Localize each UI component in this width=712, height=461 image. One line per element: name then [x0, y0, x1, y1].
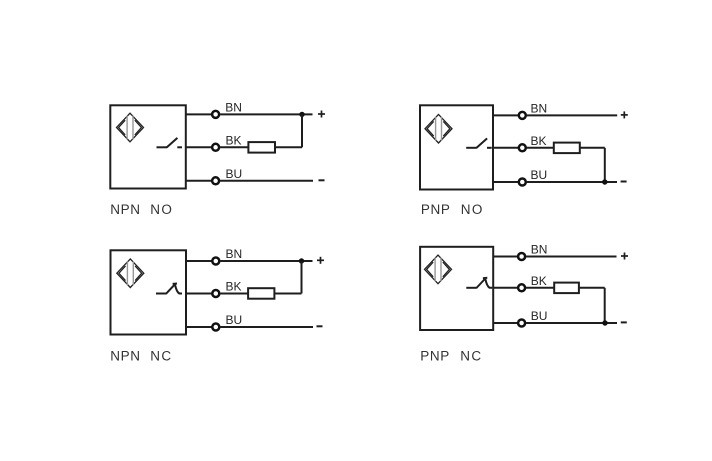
svg-text:BU: BU — [226, 313, 243, 327]
wire BU Q2 (terminal to -) — [527, 181, 617, 183]
wire BN Q4 (box to terminal) — [493, 256, 517, 258]
sensor body PNP-NC — [420, 247, 493, 330]
NC switch Q4 — [466, 278, 492, 288]
wire BK Q1 (terminal to resistor) — [220, 146, 249, 148]
wire resistor to corner Q1 — [275, 146, 302, 148]
junction dot Q1 on BN — [299, 112, 304, 117]
wire resistor to corner Q3 — [274, 293, 301, 295]
wire resistor to corner Q2 — [580, 147, 605, 149]
plus terminal Q2 — [621, 111, 628, 118]
wire BN Q2 (terminal to +) — [527, 114, 618, 116]
wire BK Q3 (terminal to resistor) — [220, 293, 248, 295]
proximity symbol inner bars Q2 — [436, 117, 442, 141]
proximity symbol inner bars Q1 — [127, 116, 133, 140]
wire BU Q1 (terminal to -) — [220, 180, 313, 182]
sensor body NPN-NC — [111, 250, 187, 334]
proximity symbol diamond Q1 — [117, 113, 144, 142]
terminal circle BU Q2 — [519, 179, 526, 186]
svg-text:NPN: NPN — [110, 202, 140, 217]
plus terminal Q4 — [621, 253, 628, 260]
terminal circle BU Q4 — [518, 320, 525, 327]
load resistor Q4 — [554, 283, 579, 294]
svg-text:NPN: NPN — [110, 348, 140, 363]
wire BN Q1 (box to terminal) — [186, 113, 212, 115]
minus terminal Q1 — [319, 179, 325, 181]
svg-text:BN: BN — [225, 101, 242, 115]
plus terminal Q3 — [317, 257, 324, 264]
terminal circle BK Q1 — [212, 144, 219, 151]
load resistor Q1 — [248, 142, 275, 153]
wire BN Q2 (box to terminal) — [493, 114, 518, 116]
minus terminal Q3 — [317, 325, 323, 327]
terminal circle BN Q1 — [212, 111, 219, 118]
load resistor Q2 — [554, 143, 580, 154]
wire BK Q1 (box to terminal) — [186, 146, 212, 148]
wire vertical link Q2 — [604, 148, 606, 182]
terminal circle BK Q4 — [518, 284, 525, 291]
proximity symbol inner bars Q4 — [435, 258, 441, 282]
wire BK Q2 (box to terminal) — [493, 147, 518, 149]
svg-text:BN: BN — [531, 243, 548, 257]
proximity symbol inner bars Q3 — [127, 261, 133, 285]
terminal circle BN Q2 — [519, 112, 526, 119]
wire vertical link Q1 — [301, 114, 303, 147]
sensor body NPN-NO — [110, 105, 186, 188]
proximity symbol diamond Q4 — [425, 255, 452, 284]
proximity symbol diamond Q3 — [117, 259, 144, 288]
wire BU Q4 (box to terminal) — [493, 322, 517, 324]
NO switch Q2 — [466, 138, 492, 148]
wire vertical link Q3 — [301, 261, 303, 294]
svg-text:NC: NC — [150, 348, 172, 363]
wire resistor to corner Q4 — [579, 287, 605, 289]
wire BK Q4 (terminal to resistor) — [526, 287, 554, 289]
wire BN Q3 (box to terminal) — [186, 260, 212, 262]
wire BK Q3 (box to terminal) — [186, 293, 212, 295]
load resistor Q3 — [248, 288, 274, 299]
terminal circle BN Q3 — [212, 258, 219, 265]
NO switch Q1 — [157, 138, 183, 148]
svg-text:BK: BK — [226, 280, 242, 294]
wire BK Q4 (box to terminal) — [493, 287, 517, 289]
minus terminal Q2 — [621, 181, 627, 183]
sensor body PNP-NO — [420, 105, 493, 189]
junction dot Q2 on BU — [602, 179, 607, 184]
junction dot Q3 on BN — [299, 258, 304, 263]
wire BN Q4 (terminal to +) — [526, 256, 617, 258]
svg-text:NO: NO — [461, 202, 484, 217]
plus terminal Q1 — [318, 111, 325, 118]
wire BK Q2 (terminal to resistor) — [527, 147, 554, 149]
wire BU Q2 (box to terminal) — [493, 181, 518, 183]
svg-text:BU: BU — [531, 309, 548, 323]
svg-text:PNP: PNP — [420, 348, 450, 363]
junction dot Q4 on BU — [602, 320, 607, 325]
wire BU Q4 (terminal to -) — [526, 322, 617, 324]
svg-text:BN: BN — [226, 247, 243, 261]
terminal circle BU Q1 — [212, 177, 219, 184]
NC switch Q3 — [156, 284, 182, 294]
wire BU Q1 (box to terminal) — [186, 180, 212, 182]
wire BU Q3 (terminal to -) — [220, 326, 313, 328]
terminal circle BN Q4 — [518, 253, 525, 260]
svg-text:PNP: PNP — [421, 202, 451, 217]
wire BN Q1 (terminal to +) — [220, 113, 313, 115]
terminal circle BK Q2 — [519, 144, 526, 151]
minus terminal Q4 — [621, 321, 627, 323]
svg-text:BK: BK — [226, 133, 242, 147]
wire BU Q3 (box to terminal) — [186, 326, 212, 328]
svg-text:NC: NC — [460, 348, 482, 363]
terminal circle BK Q3 — [212, 290, 219, 297]
svg-text:BK: BK — [531, 274, 547, 288]
wire BN Q3 (terminal to +) — [220, 260, 312, 262]
svg-text:BK: BK — [531, 134, 547, 148]
terminal circle BU Q3 — [212, 324, 219, 331]
svg-text:BU: BU — [531, 168, 548, 182]
svg-text:BN: BN — [531, 102, 548, 116]
proximity symbol diamond Q2 — [425, 114, 452, 143]
svg-text:NO: NO — [150, 202, 173, 217]
svg-text:BU: BU — [226, 167, 243, 181]
wire vertical link Q4 — [604, 288, 606, 323]
